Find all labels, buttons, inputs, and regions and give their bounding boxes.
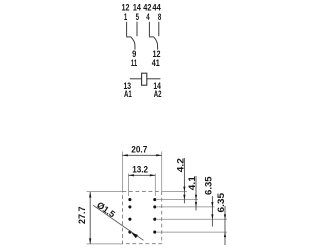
- wire NC terminal pin 4: [148, 22, 150, 37]
- dimension 6.35 lower arrow top: [224, 214, 226, 219]
- hole L4: [128, 231, 131, 234]
- svg-text:11: 11: [131, 58, 137, 68]
- svg-text:20.7: 20.7: [131, 144, 147, 154]
- svg-text:5: 5: [136, 12, 139, 22]
- NC contact foot pin 1: [126, 36, 131, 38]
- svg-text:6.35: 6.35: [216, 193, 226, 213]
- dimension 20.7 arrow left: [122, 154, 128, 156]
- dimension 27.7 line: [89, 192, 91, 244]
- wire NO terminal pin 8: [158, 22, 160, 36]
- wire NC terminal pin 1: [126, 22, 128, 37]
- dimension 6.35 upper arrow top: [211, 202, 213, 207]
- relay body outline dashed: [123, 191, 162, 243]
- svg-text:A2: A2: [154, 89, 162, 99]
- extension line 20.7 left: [121, 152, 123, 192]
- hole R1: [153, 198, 156, 201]
- extension line row1: [157, 199, 198, 201]
- dimension 4.2 arrow lower: [183, 195, 185, 200]
- dimension 20.7 arrow right: [156, 154, 162, 156]
- dimension 4.1 line: [195, 176, 197, 211]
- svg-text:4.2: 4.2: [175, 158, 185, 172]
- hole diameter leader arrow: [131, 233, 138, 238]
- dimension 13.2 line: [129, 174, 156, 176]
- svg-text:Ø1.5: Ø1.5: [95, 200, 117, 220]
- svg-text:8: 8: [158, 12, 161, 22]
- extension line row2: [157, 206, 215, 208]
- dimension 13.2 arrow right: [150, 174, 156, 176]
- svg-text:13.2: 13.2: [132, 164, 148, 174]
- hole L3: [128, 218, 131, 221]
- hole R4: [153, 231, 156, 234]
- dimension 4.2 line: [183, 158, 185, 203]
- hole L2: [128, 205, 131, 208]
- svg-text:1: 1: [124, 12, 127, 22]
- dimension 6.35 upper arrow bottom: [211, 214, 213, 219]
- svg-text:6.35: 6.35: [204, 176, 214, 195]
- movable contact pole 2: [154, 37, 158, 49]
- coil U1 rectangle: [142, 73, 147, 85]
- extension line row4: [157, 231, 227, 233]
- extension line top edge right: [162, 190, 187, 192]
- dimension 6.35 upper line: [211, 196, 213, 227]
- extension line 13.2 left: [128, 174, 130, 197]
- NC contact foot pin 4: [149, 36, 154, 38]
- dimension 27.7 arrow bottom: [89, 238, 91, 244]
- dimension 4.1 arrow upper: [195, 195, 197, 200]
- hole R2: [153, 205, 156, 208]
- dimension 4.1 arrow lower: [195, 202, 197, 207]
- svg-text:27.7: 27.7: [77, 206, 87, 224]
- hole diameter leader line: [93, 205, 143, 240]
- svg-text:4: 4: [146, 12, 149, 22]
- wire NO terminal pin 5: [136, 22, 138, 36]
- coil wire right: [147, 78, 161, 80]
- svg-text:41: 41: [152, 58, 160, 68]
- extension line 13.2 right: [154, 174, 156, 197]
- dimension 6.35 lower arrow bottom: [224, 232, 226, 237]
- extension line row3: [157, 218, 227, 220]
- svg-text:A1: A1: [124, 89, 132, 99]
- extension line 27.7 bottom: [87, 243, 123, 245]
- dimension 4.2 arrow upper: [183, 187, 185, 192]
- coil wire left: [130, 78, 142, 80]
- extension line 20.7 right: [161, 152, 163, 192]
- extension line 27.7 top: [87, 190, 123, 192]
- dimension 13.2 arrow left: [129, 174, 135, 176]
- movable contact pole 1: [131, 37, 135, 49]
- hole L1: [128, 198, 131, 201]
- dimension 20.7 line: [122, 154, 161, 156]
- dimension 27.7 arrow top: [89, 192, 91, 198]
- hole R3: [153, 218, 156, 221]
- dimension 6.35 lower line: [224, 206, 226, 245]
- svg-text:4.1: 4.1: [187, 176, 197, 190]
